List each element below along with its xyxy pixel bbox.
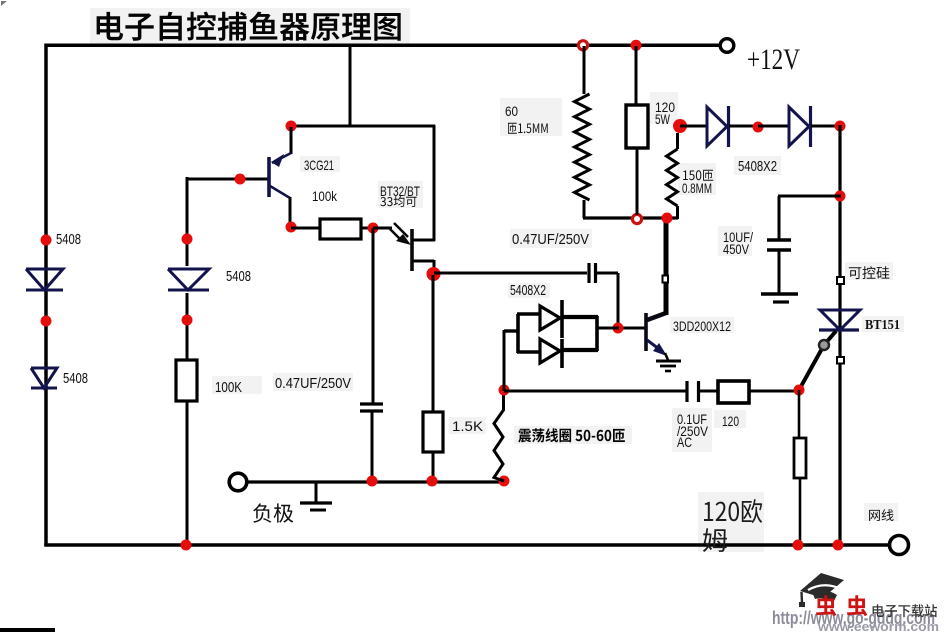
terminal +12V <box>720 39 734 53</box>
junction top rail R5 <box>631 40 642 51</box>
gate terminal bead <box>819 340 829 350</box>
resistor R4 120 <box>718 381 749 403</box>
title 电子自控捕鱼器原理图 <box>97 12 401 41</box>
link marker (SCR cathode) <box>837 357 844 364</box>
ground GND1 <box>300 482 332 510</box>
terminal 负极 (negative) <box>229 473 247 491</box>
wire top rail to Q1 box <box>349 45 352 127</box>
svg-text:3CG21: 3CG21 <box>304 157 334 173</box>
wire C2 to base node <box>597 273 645 329</box>
junction Q2 base1 node <box>427 267 441 281</box>
junction Q1 emitter bottom <box>286 222 297 233</box>
svg-text:3DD200X12: 3DD200X12 <box>673 318 731 334</box>
wire Q1 box top <box>290 125 435 128</box>
junction col2 below D3 <box>182 315 193 326</box>
wire coil bottom link <box>583 216 678 219</box>
diode D3 5408 <box>168 266 210 293</box>
junction gate node <box>794 385 805 396</box>
svg-text:60: 60 <box>505 103 518 119</box>
junction L3 top (big) <box>673 119 687 133</box>
ground GND2 (Q3 emitter) <box>656 353 681 371</box>
resistor R2 100k <box>291 227 320 230</box>
svg-text:5408X2: 5408X2 <box>738 158 777 175</box>
svg-text:www.eeworm.com: www.eeworm.com <box>817 619 939 632</box>
wire C4 to R4 <box>698 390 718 393</box>
wire chain output down (SCR anode column) <box>838 125 841 546</box>
junction between chain diodes <box>753 122 764 133</box>
wire chain segment 1 <box>680 125 708 128</box>
junction col2 above D3 <box>182 234 193 245</box>
label 震荡线圈 50-60匝 <box>518 428 625 442</box>
wire negative rail <box>248 480 505 483</box>
wire base of Q1 to column 2 <box>187 178 268 181</box>
SCR gate lead <box>799 331 836 390</box>
junction col1 above D1 <box>41 235 52 246</box>
svg-text:1.5K: 1.5K <box>452 418 484 434</box>
diode D2 5408 <box>31 368 57 388</box>
junction oscillator coil negative rail <box>499 476 510 487</box>
wire branch to C5 <box>778 196 841 239</box>
wire bottom rail <box>44 543 890 547</box>
junction coil top / pulse wire <box>499 385 510 396</box>
junction collector column top <box>662 213 673 224</box>
link marker (collector column) <box>663 276 669 283</box>
wire R4 to gate node <box>749 390 800 393</box>
transistor Q1 3CG21 <box>269 127 291 228</box>
svg-text:100k: 100k <box>312 188 338 204</box>
junction Q1 collector top <box>286 121 297 132</box>
wire UJT node to C2 <box>434 272 587 275</box>
wire Q1 box right <box>433 125 436 241</box>
diode D7 5408 <box>758 106 841 147</box>
junction col2 bottom rail <box>181 540 192 551</box>
resistor R6 120欧姆 <box>794 390 806 546</box>
svg-text:5408: 5408 <box>63 370 88 387</box>
junction base Q1 <box>235 174 246 185</box>
label background shading <box>90 8 904 552</box>
junction 3DD base node <box>613 323 624 334</box>
capacitor C4 0.1UF/250V AC <box>687 381 699 402</box>
svg-text:0.8MM: 0.8MM <box>682 180 712 196</box>
svg-text:5408: 5408 <box>56 231 81 248</box>
wire left rail (column 1) <box>44 44 48 547</box>
capacitor C2 0.47UF/250V <box>589 263 596 283</box>
capacitor C3 0.47UF/250V <box>360 404 383 411</box>
junction R2 right <box>368 223 379 234</box>
crossover ring coil link <box>632 214 641 223</box>
label 网线 <box>869 509 893 521</box>
label 150匝 0.8MM <box>683 170 713 181</box>
svg-text:0.47UF/250V: 0.47UF/250V <box>275 375 351 392</box>
resistor R3 1.5K <box>423 412 443 452</box>
svg-text:5408X2: 5408X2 <box>510 282 546 299</box>
svg-text:100K: 100K <box>215 379 242 396</box>
junction SCR column bottom rail <box>833 540 844 551</box>
junction R3 negative rail <box>427 476 438 487</box>
junction R6 bottom rail <box>793 540 804 551</box>
svg-text:+12V: +12V <box>747 43 800 76</box>
svg-text:AC: AC <box>677 434 692 450</box>
transistor Q2 BT32 unijunction <box>373 223 435 276</box>
junction col1 below D1 <box>41 316 52 327</box>
wire R3 to negative rail <box>432 452 435 482</box>
SCR Q4 BT151 <box>819 310 860 330</box>
logo graduation cap <box>799 573 844 607</box>
resistor R5 120 5W <box>626 46 648 215</box>
resistor R1 100K <box>176 360 197 401</box>
wire column 2 vertical <box>186 177 189 546</box>
label 可控硅 <box>849 266 890 279</box>
wire R2 junction down to C3 <box>372 228 375 403</box>
crossover ring top rail <box>578 41 587 50</box>
label 33均可 <box>380 196 416 207</box>
wire UJT node down to R3 <box>432 275 435 412</box>
wire C3 to negative rail <box>371 411 374 482</box>
logo 虫虫 <box>816 595 867 616</box>
terminal 网线 output <box>890 536 909 555</box>
diode D6 5408 <box>707 106 759 147</box>
label 120欧姆 <box>704 499 762 523</box>
inductor L2 60匝1.5MM <box>575 46 590 218</box>
svg-text:0.47UF/250V: 0.47UF/250V <box>512 231 589 248</box>
wire top +12V rail <box>45 44 720 48</box>
junction C3 negative rail <box>367 476 378 487</box>
svg-text:5W: 5W <box>655 111 671 127</box>
svg-text:BT151: BT151 <box>865 318 900 333</box>
svg-text:120: 120 <box>722 413 739 429</box>
capacitor C5 10UF/450V <box>767 240 791 293</box>
diode block D4 D5 5408X2 <box>517 300 619 368</box>
logo 电子下载站 <box>873 604 937 617</box>
transistor Q3 3DD200X12 <box>646 313 667 356</box>
diode D1 5408 <box>26 269 63 290</box>
wire Q3 collector column <box>664 218 669 315</box>
junction chain output <box>835 121 846 132</box>
link marker (SCR anode) <box>837 277 844 284</box>
inductor L1 oscillation coil <box>494 389 504 481</box>
top-left corner mark <box>1 1 7 6</box>
svg-text:5408: 5408 <box>226 268 251 285</box>
wire pulse line <box>504 390 688 393</box>
label 负极 <box>253 503 293 522</box>
junction 10UF branch <box>835 191 846 202</box>
wire into diode block <box>504 330 519 391</box>
inductor L3 150匝0.8MM <box>667 133 678 219</box>
ground GND3 <box>761 294 798 302</box>
bottom-left black strip <box>0 628 55 632</box>
svg-text:450V: 450V <box>723 241 750 257</box>
